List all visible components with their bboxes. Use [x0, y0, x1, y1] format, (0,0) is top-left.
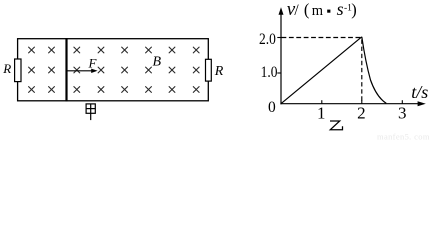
label 甲 (figure 1 caption, drawn strokes) — [86, 104, 95, 120]
conducting rod (slider) — [65, 38, 67, 101]
tick t=3 — [401, 100, 403, 104]
svg-text:manfen5. com: manfen5. com — [377, 132, 430, 141]
svg-text:1: 1 — [317, 104, 326, 123]
tick t=1 — [321, 100, 323, 104]
svg-text:2: 2 — [357, 104, 366, 123]
svg-text:2.0: 2.0 — [259, 31, 276, 48]
dashed guide line t=2 — [361, 40, 363, 104]
label 乙 (figure 2 caption, drawn strokes) — [330, 121, 343, 130]
v-t line rising segment — [281, 37, 361, 104]
resistor R (left) — [15, 59, 21, 82]
svg-text:1.0: 1.0 — [261, 64, 278, 81]
dashed guide line v=2.0 — [282, 37, 362, 39]
svg-text:R: R — [2, 61, 11, 76]
v axis (vertical) — [279, 7, 284, 104]
dot in axis title — [327, 10, 330, 13]
svg-text:B: B — [153, 55, 162, 70]
svg-text:R: R — [214, 64, 224, 79]
magnetic flux symbols, left compartment — [29, 47, 55, 92]
tick t=2 — [361, 100, 363, 104]
tick v=2.0 — [277, 37, 281, 39]
resistor R (right) — [206, 59, 212, 81]
svg-text:v/(ms-1): v/(ms-1) — [287, 0, 357, 20]
t axis (horizontal) — [280, 101, 425, 106]
tick v=1.0 — [277, 72, 281, 74]
svg-text:F: F — [88, 55, 98, 70]
svg-text:3: 3 — [398, 104, 407, 123]
force arrow F on rod — [67, 69, 98, 73]
svg-text:0: 0 — [268, 99, 276, 116]
svg-text:t/s: t/s — [411, 82, 428, 102]
v-t decay curve — [362, 37, 387, 104]
magnetic flux symbols, right compartment — [74, 47, 199, 92]
wire: outer rectangular circuit loop — [18, 39, 209, 101]
